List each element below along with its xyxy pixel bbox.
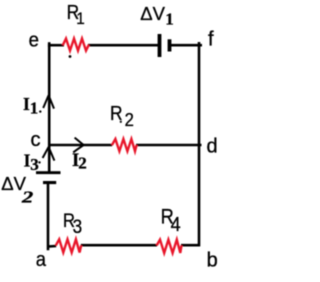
sketch dot below R2 label — [120, 121, 122, 123]
svg-text:4: 4 — [171, 214, 181, 236]
sketch dot near I3 arrow — [38, 161, 40, 163]
sketch dot near I1 arrow — [39, 110, 41, 112]
svg-text:2: 2 — [78, 154, 87, 173]
wire R3 to R4 — [81, 244, 157, 247]
current arrow I3 — [43, 147, 55, 161]
svg-text:2: 2 — [125, 109, 134, 130]
wire e-c left vertical — [48, 44, 51, 172]
node e corner stub — [48, 42, 51, 47]
battery dV1 short plate — [168, 39, 172, 51]
svg-text:c: c — [31, 129, 41, 151]
wire R1 to battery dV1 — [88, 44, 159, 47]
wire e to R1 — [48, 44, 64, 47]
svg-text:a: a — [36, 250, 47, 272]
svg-text:d: d — [207, 135, 218, 157]
svg-text:1: 1 — [165, 10, 174, 29]
battery dV1 long plate — [158, 34, 162, 57]
svg-text:1: 1 — [76, 9, 85, 28]
wire battery2-a left vertical lower — [47, 184, 50, 251]
svg-text:2: 2 — [21, 188, 33, 207]
svg-text:1: 1 — [30, 98, 39, 117]
battery dV2 long plate — [36, 171, 61, 174]
svg-text:ΔV: ΔV — [140, 3, 165, 24]
svg-text:3: 3 — [30, 155, 39, 174]
wire a to R3 — [48, 245, 57, 248]
sketch dot below R1 — [69, 55, 72, 58]
wire c to R2 — [48, 144, 112, 147]
svg-text:e: e — [29, 30, 39, 52]
svg-text:R: R — [110, 102, 123, 124]
wire f-d-b right vertical — [198, 42, 201, 246]
wire R2 to d — [136, 144, 202, 147]
resistor R4 zigzag — [157, 240, 182, 253]
resistor R1 zigzag — [63, 39, 89, 51]
battery dV2 short plate — [43, 181, 56, 184]
svg-text:3: 3 — [73, 216, 83, 237]
resistor R3 zigzag — [56, 239, 81, 252]
wire R4 to b — [181, 244, 200, 247]
resistor R2 zigzag — [112, 139, 137, 151]
current arrow I1 — [43, 95, 54, 108]
current arrow I2 — [73, 138, 83, 153]
svg-text:f: f — [208, 29, 214, 51]
wire top segment right of battery to f — [171, 44, 202, 47]
svg-text:b: b — [207, 250, 218, 272]
